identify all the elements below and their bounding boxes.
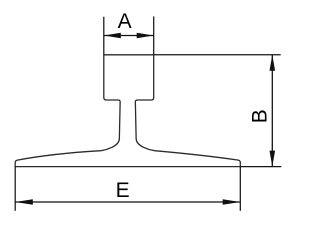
svg-text:A: A <box>118 10 132 33</box>
svg-text:E: E <box>116 179 130 202</box>
svg-text:B: B <box>249 109 272 123</box>
